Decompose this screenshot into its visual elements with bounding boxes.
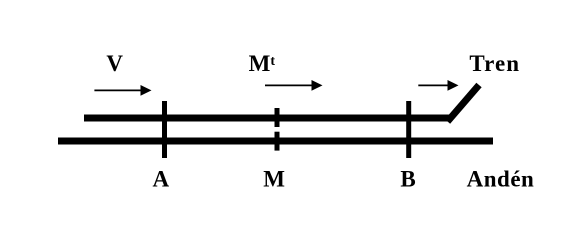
wire: lower platform line (58, 138, 493, 145)
svg-text:Andén: Andén (467, 167, 535, 192)
svg-text:A: A (152, 167, 169, 192)
node M dashed tick mark (275, 108, 280, 151)
svg-text:Mt: Mt (249, 51, 276, 76)
arrow for Mt (265, 80, 323, 91)
arrow for Tren (418, 80, 458, 91)
node A tick mark (162, 101, 167, 158)
node B tick mark (406, 101, 411, 158)
train siding diagonal line (448, 85, 480, 122)
svg-text:V: V (106, 51, 123, 76)
svg-text:B: B (400, 167, 415, 192)
svg-text:M: M (263, 167, 285, 192)
arrow for velocity V (94, 85, 151, 96)
svg-text:Tren: Tren (469, 51, 520, 76)
wire: upper track line (84, 115, 449, 122)
